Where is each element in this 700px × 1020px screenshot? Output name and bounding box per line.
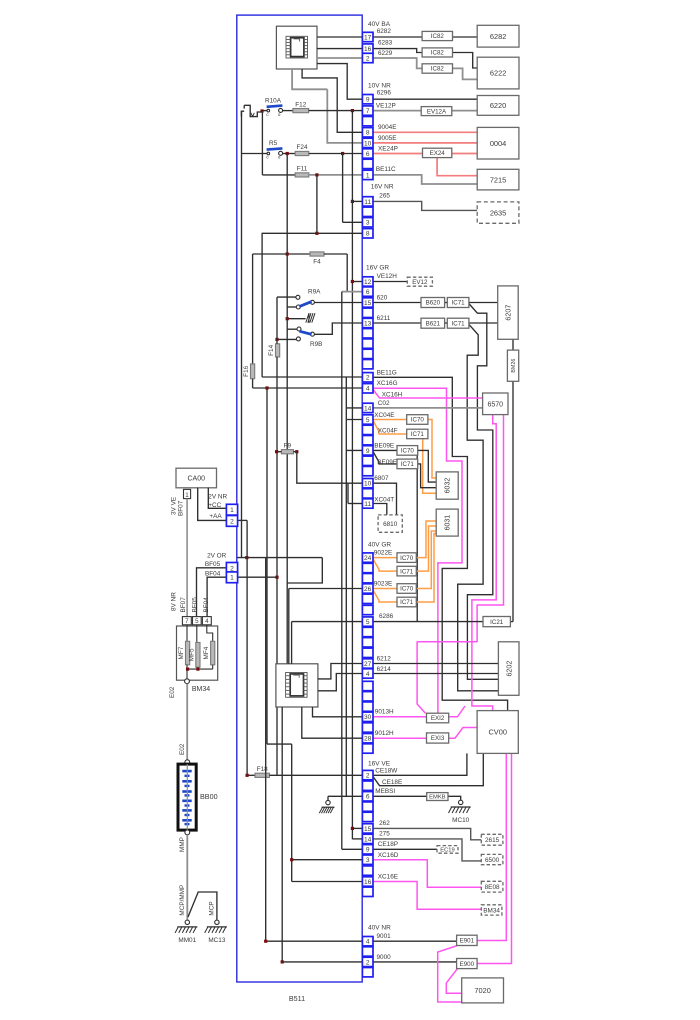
- svg-text:EXI3: EXI3: [431, 735, 445, 742]
- pin 1L (+CC): [226, 504, 237, 515]
- svg-text:B511: B511: [289, 994, 305, 1003]
- component 6032: [436, 472, 458, 499]
- component BM26: [507, 350, 518, 381]
- pin 2L (+AA): [226, 516, 237, 527]
- svg-text:BF04: BF04: [205, 571, 221, 578]
- fuse F18: [247, 774, 255, 776]
- component 7020: [462, 978, 504, 1003]
- svg-text:MC10: MC10: [452, 817, 469, 824]
- wire 620 from R9A to pin 15: [314, 302, 362, 304]
- svg-text:16: 16: [364, 879, 372, 886]
- svg-text:C02: C02: [378, 400, 390, 407]
- svg-text:IC71: IC71: [452, 300, 466, 307]
- wire 6211 from R9B up to pin 13: [314, 323, 362, 334]
- svg-text:620: 620: [377, 294, 388, 301]
- wire XC16D (pin 3b to 8E08): [373, 860, 481, 888]
- wire C02 (pin 14 to 6570): [373, 407, 483, 409]
- svg-text:16V NR: 16V NR: [371, 183, 394, 190]
- interface IC70 (9022E): [397, 553, 416, 563]
- svg-text:9: 9: [366, 97, 370, 104]
- shunt R5: [242, 153, 269, 155]
- battery terminal bottom: [185, 830, 190, 835]
- svg-text:275: 275: [379, 831, 390, 838]
- svg-text:16: 16: [364, 46, 372, 53]
- svg-text:3V VE: 3V VE: [171, 497, 178, 515]
- wire vertical pin6b feed rail (down to CE18P row): [341, 292, 343, 850]
- pin 26 (y=588.5): [362, 584, 373, 593]
- svg-text:CE18P: CE18P: [378, 841, 398, 848]
- wire 9005E internal (U1 to pin 10): [292, 69, 327, 89]
- pin 4 (y=941.2): [362, 937, 373, 946]
- svg-text:4: 4: [205, 618, 209, 625]
- pin 5 (y=419.5): [362, 415, 373, 424]
- svg-text:11: 11: [364, 199, 371, 206]
- wire R9B lower contact to F14 rail: [277, 338, 296, 340]
- svg-text:IC70: IC70: [400, 586, 414, 593]
- svg-text:8: 8: [366, 130, 370, 137]
- BM34 pin 4: [202, 617, 211, 625]
- svg-text:CE18W: CE18W: [375, 768, 398, 775]
- fuse F11: [262, 174, 295, 176]
- svg-text:5: 5: [366, 619, 370, 626]
- svg-text:BB00: BB00: [200, 792, 218, 801]
- svg-text:14: 14: [364, 405, 372, 412]
- wire 6570 output B (magenta): [477, 415, 503, 642]
- svg-text:MCP/MMP: MCP/MMP: [179, 885, 186, 916]
- svg-text:F18: F18: [257, 766, 268, 773]
- svg-text:BM34: BM34: [192, 686, 210, 693]
- wire 9012H (pin 28 to EXI3 to CV00): [373, 737, 427, 739]
- wire 6296 internal (U1 to pin 9): [317, 64, 362, 100]
- wire XC04E (pin 5c to IC70 to 6032): [373, 419, 407, 421]
- wire VE12H internal stub (pin 12): [352, 281, 362, 283]
- svg-text:6222: 6222: [490, 69, 506, 78]
- wire MCP branch to ground MC13: [188, 892, 217, 920]
- pin 27 (y=663.5): [362, 659, 373, 668]
- wire vertical rail pin7 junction down to 262/275 rows: [351, 111, 353, 840]
- wire 6207 to BM26 link: [512, 339, 514, 350]
- wire XE24P (pin 6 through EX24 to 0004): [373, 153, 423, 155]
- svg-text:BE09E: BE09E: [374, 443, 394, 450]
- component 6220: [477, 96, 519, 116]
- pin 13 (y=323): [362, 318, 373, 327]
- pin 3 (y=222.3): [362, 218, 373, 227]
- svg-text:IC71: IC71: [411, 431, 425, 438]
- svg-text:IC71: IC71: [400, 568, 414, 575]
- svg-text:6: 6: [366, 151, 370, 158]
- pin 12 (y=281.5): [362, 277, 373, 286]
- wire BM26 down to IC21: [512, 381, 514, 621]
- wire 9023E internal (to pin 26): [289, 588, 363, 590]
- svg-text:2: 2: [366, 773, 370, 780]
- pin 30 (y=716.8): [362, 712, 373, 721]
- svg-text:2635: 2635: [490, 208, 506, 217]
- wire 9022E (pin 24 to IC70c to 6031): [373, 557, 397, 559]
- svg-text:6570: 6570: [488, 401, 504, 408]
- pin 2 (y=775.1): [362, 770, 373, 779]
- svg-text:VE12P: VE12P: [376, 102, 396, 109]
- svg-text:BE11C: BE11C: [376, 166, 396, 173]
- splice EX24: [423, 148, 452, 157]
- wire rail x=287.2 (R5 junction down to module U2): [286, 154, 288, 664]
- fuse F16 (vertical) with feed from F4: [252, 254, 254, 364]
- wire vertical pin8b-to-BE11G: [261, 233, 263, 377]
- svg-text:6220: 6220: [490, 101, 506, 110]
- wire +CC (CA00 to B511 pin 1L): [208, 488, 226, 509]
- svg-text:9001: 9001: [377, 933, 392, 940]
- svg-text:11: 11: [364, 501, 371, 508]
- svg-text:6810: 6810: [383, 521, 398, 528]
- wire 6570 output A (magenta to CV00): [472, 415, 496, 711]
- component 6031: [436, 509, 458, 536]
- interface IC71 (9023E): [397, 597, 416, 607]
- svg-text:IC82: IC82: [431, 33, 445, 40]
- svg-text:9: 9: [366, 847, 370, 854]
- wire F4 output down to pin 6b: [346, 254, 348, 292]
- wire E900 to 7020 (magenta): [446, 969, 461, 994]
- svg-text:IC71: IC71: [452, 320, 466, 327]
- BM34 pin 5: [193, 617, 202, 625]
- svg-text:6286: 6286: [379, 613, 394, 620]
- pin 16 (y=48.6): [362, 44, 373, 53]
- wire rail x=267 (F16 node down): [266, 388, 268, 744]
- wire 6214 internal (U2 to pin 4c): [318, 674, 363, 691]
- wire internal 262 stub: [352, 827, 362, 829]
- wire 6282 internal (U1 to pin 17): [317, 36, 362, 38]
- svg-text:BM26: BM26: [511, 359, 517, 373]
- svg-text:F4: F4: [313, 259, 321, 266]
- wire 6286 (pin 5d to IC21): [373, 621, 483, 623]
- svg-text:B620: B620: [426, 300, 441, 307]
- microcontroller module U2 (inside B511): [276, 664, 318, 707]
- interface IC71 (9022E): [397, 566, 416, 576]
- svg-text:IC71: IC71: [401, 461, 415, 468]
- pin 3 (y=859.7): [362, 855, 373, 864]
- interface box IC82 (third): [422, 64, 452, 73]
- wire internal 9001 feed (pin 4d): [265, 558, 267, 942]
- wire XC16D internal: [292, 859, 363, 861]
- interface IC21: [483, 617, 510, 627]
- wire 6286 internal (to pin 5d): [292, 621, 363, 623]
- svg-text:IC70: IC70: [411, 417, 425, 424]
- pin 1 (y=174.9): [362, 170, 373, 179]
- svg-text:1: 1: [366, 172, 370, 179]
- fuse MF4: [207, 625, 213, 642]
- svg-text:26: 26: [364, 586, 372, 593]
- pin 15 (y=302.5): [362, 298, 373, 307]
- pin 15 (y=828.4): [362, 824, 373, 833]
- svg-text:EV12A: EV12A: [427, 108, 447, 115]
- wire rail pin6-to-pin3 vertical: [342, 154, 344, 223]
- wire E02 (BM34 to battery BB00): [186, 684, 188, 760]
- svg-text:6: 6: [366, 289, 370, 296]
- component 6207: [498, 286, 519, 339]
- wire coil to rail: [287, 318, 305, 320]
- svg-text:IC70: IC70: [400, 555, 414, 562]
- svg-text:2: 2: [366, 375, 370, 382]
- svg-text:F14: F14: [268, 344, 275, 355]
- svg-text:VE12H: VE12H: [377, 273, 398, 280]
- splice EMKB: [427, 793, 448, 801]
- svg-text:9: 9: [366, 448, 370, 455]
- splice E901: [457, 935, 478, 945]
- svg-text:3: 3: [366, 220, 370, 227]
- battery terminal top: [185, 760, 190, 765]
- svg-text:6500: 6500: [485, 857, 500, 864]
- wire +AA rail down to F18: [246, 520, 248, 775]
- pin 7 (y=110.6): [362, 106, 373, 115]
- fuse F9: [281, 450, 293, 454]
- wire CE18W (pin 2c to CV00): [373, 753, 467, 775]
- wire CE18P (pin 9c to EC19): [373, 848, 437, 850]
- wire 9000 (pin 2d to E900): [373, 961, 457, 963]
- component 0004: [477, 127, 519, 159]
- pin 2Lb (BF05): [226, 563, 237, 574]
- svg-text:3: 3: [366, 857, 370, 864]
- svg-text:15: 15: [364, 300, 372, 307]
- wire XC16E internal: [292, 881, 363, 883]
- interface box IC82 (second): [422, 48, 452, 57]
- svg-text:6: 6: [366, 794, 370, 801]
- wire 6229 internal (U1 to pin 2): [317, 57, 362, 59]
- svg-text:XC04E: XC04E: [374, 412, 394, 419]
- connector BM34 (dashed): [481, 905, 502, 915]
- fuse F12: [282, 110, 293, 112]
- interface IC71 (XC04F): [407, 429, 428, 439]
- wire 6211 branch to 6202: [458, 324, 499, 691]
- pin 6 (y=153.5): [362, 149, 373, 158]
- svg-text:15: 15: [364, 826, 372, 833]
- svg-text:262: 262: [379, 820, 390, 827]
- svg-text:10: 10: [364, 481, 372, 488]
- svg-text:MF4: MF4: [203, 646, 210, 659]
- svg-text:6202: 6202: [504, 661, 513, 677]
- wire internal stub rail (BE11G row down to MEBSI row): [345, 377, 347, 797]
- wire 9022E-b (to IC71c to 6031): [373, 559, 397, 571]
- wire 6282 (pin 17 to IC82 to 6282): [373, 36, 422, 38]
- component 6570: [483, 393, 508, 415]
- svg-text:MMP: MMP: [179, 837, 186, 852]
- wire BE11C internal (F11 to pin 1): [309, 174, 363, 176]
- svg-text:EC19: EC19: [440, 847, 455, 853]
- svg-text:IC21: IC21: [490, 619, 504, 626]
- shunt R10A: [262, 110, 268, 112]
- wire EX24 to 7215: [437, 158, 477, 176]
- svg-text:40V NR: 40V NR: [368, 925, 391, 932]
- wire 9005E (pin 10 to 0004): [373, 142, 477, 144]
- svg-text:6282: 6282: [377, 28, 392, 35]
- wire XC16E (pin 16b to BM34): [373, 882, 481, 910]
- relay coil R9A/R9B: [306, 313, 309, 322]
- wire left rail A (R10A to 9022E row): [241, 111, 243, 558]
- svg-text:2: 2: [366, 959, 370, 966]
- connector 6500 (dashed): [481, 854, 503, 864]
- wire 6212 (pin 27 to 6202): [373, 663, 498, 665]
- wire 6807 (pin 10b to 6810): [373, 483, 397, 515]
- svg-text:F12: F12: [295, 101, 306, 108]
- svg-text:2615: 2615: [485, 837, 500, 844]
- ground (inside B511): [326, 800, 330, 804]
- svg-text:10V NR: 10V NR: [368, 83, 391, 90]
- pin 11 (y=201.4): [362, 197, 373, 206]
- svg-text:9013H: 9013H: [375, 709, 394, 716]
- ground MM01: [185, 920, 189, 924]
- svg-text:9004E: 9004E: [378, 124, 396, 131]
- pin 6 (y=291.6): [362, 287, 373, 296]
- wire BE11C (pin 1 to 7215): [373, 175, 477, 184]
- component 2635 (dashed): [477, 202, 519, 223]
- pin 4 (y=388.3): [362, 384, 373, 393]
- svg-text:E901: E901: [460, 938, 475, 945]
- svg-text:1: 1: [185, 492, 189, 499]
- svg-text:MM01: MM01: [178, 937, 196, 944]
- wire 9023E-b (to IC71d to 6031): [373, 590, 397, 602]
- wire 6229 (pin 2 to IC82c to 6222): [373, 58, 422, 68]
- CA00 pin 1: [184, 489, 191, 498]
- pin 6 (y=796.3): [362, 792, 373, 801]
- node junction R10A row: [260, 109, 263, 112]
- fuse F4: [253, 253, 310, 255]
- svg-text:BF07: BF07: [178, 500, 185, 516]
- wire 9022E internal (to pin 24): [237, 557, 322, 559]
- connector 2615 (dashed): [481, 834, 503, 845]
- wire 265 internal stub (pin 11): [352, 200, 362, 202]
- wire internal stub pin 11b: [347, 483, 349, 503]
- svg-text:o: o: [278, 113, 281, 118]
- wire BE09E (pin 9b to IC70 to 6032): [373, 449, 397, 451]
- svg-text:6283: 6283: [378, 39, 393, 46]
- svg-text:13: 13: [364, 320, 372, 327]
- wire E901 to 7020 (magenta): [438, 946, 462, 1003]
- battery BB00: [178, 764, 196, 830]
- wire +AA (CA00 to B511 pin 2L): [198, 488, 227, 521]
- svg-text:MC13: MC13: [208, 937, 225, 944]
- svg-text:F24: F24: [296, 144, 307, 151]
- wire internal gray (pin 6b): [342, 291, 363, 293]
- pin 5 (y=621.6): [362, 617, 373, 626]
- svg-text:0004: 0004: [490, 139, 506, 148]
- wire BF07 (CA00 pin1 down to MF7): [186, 499, 188, 617]
- svg-text:24: 24: [364, 555, 372, 562]
- wire BM34 common rail: [186, 668, 213, 670]
- pin 16 (y=881.5): [362, 877, 373, 886]
- svg-text:XC16E: XC16E: [378, 874, 398, 881]
- splice B621: [421, 318, 445, 328]
- interface IC71 (BE09F): [397, 459, 418, 469]
- fuse MF7: [186, 625, 188, 642]
- svg-text:10: 10: [364, 140, 372, 147]
- svg-text:28: 28: [364, 736, 372, 743]
- svg-text:R5: R5: [269, 140, 278, 147]
- wire R9A NC contact to left rail: [277, 296, 296, 298]
- pin 1Lb (BF04): [226, 572, 237, 583]
- fuse MF5: [196, 625, 198, 643]
- svg-text:IC70: IC70: [401, 448, 415, 455]
- wire internal ground stub (pin 6c MEBSI): [328, 795, 362, 797]
- pin 14 (y=838.9): [362, 834, 373, 843]
- wire BF04 inside B511 to F14 rail: [238, 576, 277, 578]
- wire XC04T (pin 11b to 6810): [373, 504, 387, 515]
- pin 24 (y=557.6): [362, 553, 373, 562]
- svg-text:27: 27: [364, 661, 372, 668]
- svg-text:CA00: CA00: [187, 476, 205, 483]
- svg-text:7020: 7020: [474, 986, 490, 995]
- svg-text:30: 30: [364, 714, 372, 721]
- svg-text:E02: E02: [179, 743, 186, 755]
- svg-text:2V NR: 2V NR: [208, 494, 227, 501]
- svg-text:9005E: 9005E: [378, 135, 396, 142]
- svg-text:MEBSI: MEBSI: [375, 788, 395, 795]
- pin 9 (y=450.4): [362, 446, 373, 455]
- svg-text:1: 1: [230, 575, 234, 582]
- ground MC10: [459, 800, 463, 804]
- svg-text:MF5: MF5: [188, 648, 195, 661]
- pin 2 (y=58): [362, 53, 373, 62]
- svg-text:6211: 6211: [377, 315, 391, 322]
- wire 6283 internal (U1 to pin 16): [317, 48, 362, 50]
- wire 620 (pin 15 to B620/IC71 to 6207): [373, 302, 421, 304]
- wire 9004E (pin 8 to 0004): [373, 131, 477, 133]
- svg-text:5: 5: [366, 417, 370, 424]
- wire rail U2 to pin 2d (9000): [281, 707, 283, 962]
- component 7215: [477, 169, 519, 190]
- component 6202: [498, 642, 519, 696]
- connector EC19 (dashed): [437, 846, 458, 854]
- interface IC70 (XC04E): [407, 415, 428, 425]
- pin 2 (y=961.9): [362, 957, 373, 966]
- wire vertical F11-to-pin8b: [316, 175, 318, 233]
- pin 10 (y=483.2): [362, 479, 373, 488]
- wire XC16H (pin 4b to 6570): [373, 390, 483, 399]
- svg-text:+AA: +AA: [209, 513, 222, 520]
- svg-text:XE24P: XE24P: [378, 145, 398, 152]
- pin 8 (y=132.3): [362, 128, 373, 137]
- svg-text:6032: 6032: [445, 478, 452, 494]
- svg-text:4: 4: [366, 939, 370, 946]
- svg-text:EX24: EX24: [430, 150, 446, 157]
- svg-text:7: 7: [366, 108, 370, 115]
- svg-text:XC16H: XC16H: [382, 392, 403, 399]
- svg-text:16V GR: 16V GR: [366, 264, 389, 271]
- wire +AA inside B511: [238, 519, 248, 521]
- wire rail x=291.7 (to XC16D/XC16E): [291, 744, 293, 881]
- svg-text:265: 265: [379, 193, 390, 200]
- wire internal 9000 stub (pin 2d): [282, 961, 362, 963]
- wire 275 (pin 14b to 6500): [373, 839, 481, 861]
- wire MMP (battery to ground MM01): [186, 835, 188, 920]
- wire internal 275 stub: [352, 838, 362, 840]
- svg-text:E900: E900: [460, 961, 475, 968]
- splice EXI3: [427, 733, 449, 743]
- svg-text:6282: 6282: [490, 32, 506, 41]
- svg-text:6807: 6807: [374, 475, 389, 482]
- svg-text:BF07: BF07: [180, 597, 187, 613]
- svg-text:6212: 6212: [377, 656, 392, 663]
- svg-text:F16: F16: [243, 365, 250, 376]
- wire BF05 (MF5 up to B511 pin 2Lb): [197, 568, 227, 617]
- svg-text:EV12: EV12: [412, 279, 428, 286]
- pin 8 (y=233.3): [362, 229, 373, 238]
- BM34 output terminal: [185, 679, 190, 684]
- svg-text:6207: 6207: [504, 305, 513, 321]
- wire rail from R10A node down to F11: [261, 111, 263, 175]
- svg-text:F9: F9: [284, 442, 292, 449]
- svg-text:5: 5: [195, 618, 199, 625]
- relay/driver module U1 (top, inside B511): [276, 26, 317, 69]
- wire VE12P internal (F12 to pin 7): [309, 110, 363, 112]
- wire XC04F (pin 5c to IC71 to 6032): [373, 421, 407, 435]
- svg-text:8V NR: 8V NR: [171, 592, 178, 611]
